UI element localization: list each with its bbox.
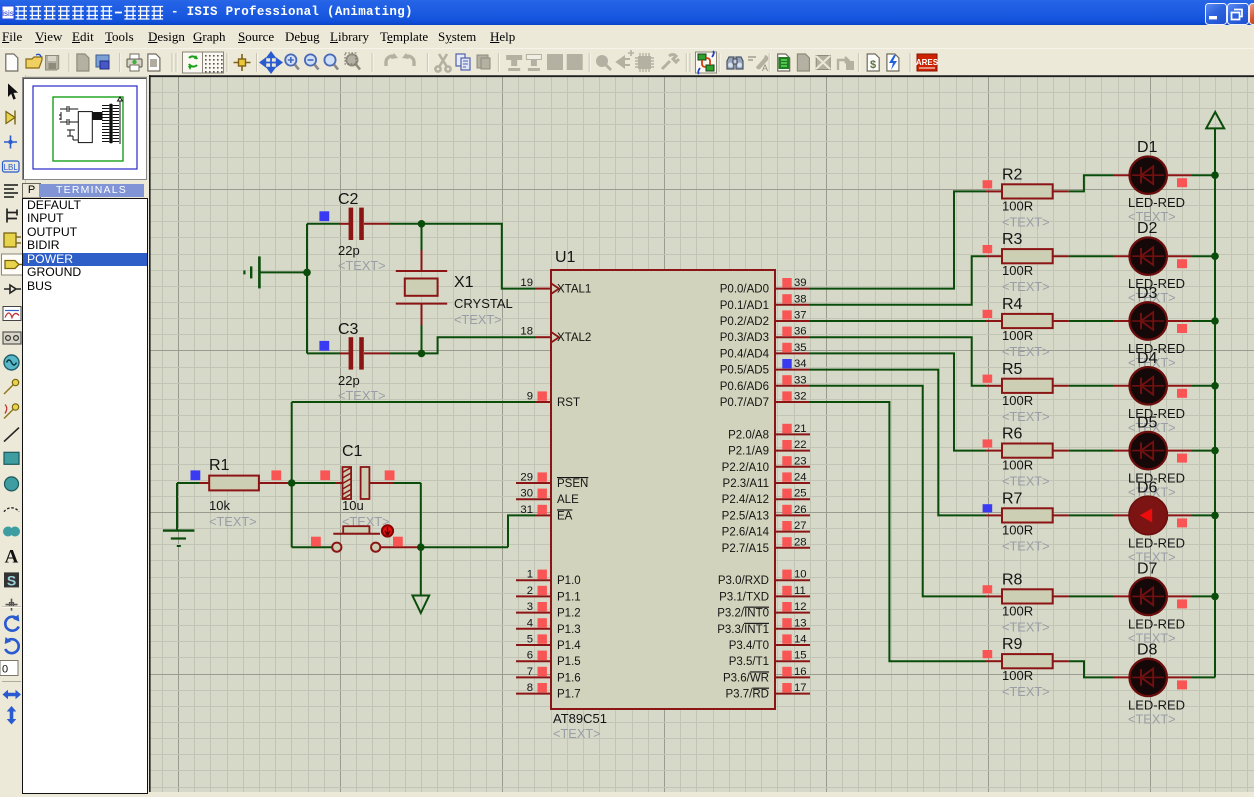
svg-text:11: 11 <box>794 585 806 597</box>
svg-text:100R: 100R <box>1002 328 1033 343</box>
svg-text:P3.0/RXD: P3.0/RXD <box>718 575 769 587</box>
svg-text:P3.1/TXD: P3.1/TXD <box>719 591 769 603</box>
svg-text:D7: D7 <box>1137 560 1158 577</box>
svg-text:LED-RED: LED-RED <box>1128 697 1185 712</box>
svg-text:D6: D6 <box>1137 479 1158 496</box>
svg-text:XTAL1: XTAL1 <box>557 284 591 296</box>
svg-text:RST: RST <box>557 397 580 409</box>
svg-text:100R: 100R <box>1002 603 1033 618</box>
svg-text:8: 8 <box>527 682 533 694</box>
svg-text:<TEXT>: <TEXT> <box>1002 279 1050 294</box>
svg-text:38: 38 <box>794 293 807 305</box>
svg-text:18: 18 <box>520 326 533 338</box>
svg-text:P3.5/T1: P3.5/T1 <box>729 656 769 668</box>
svg-text:P0.1/AD1: P0.1/AD1 <box>720 300 769 312</box>
svg-text:100R: 100R <box>1002 198 1033 213</box>
svg-text:24: 24 <box>794 472 807 484</box>
svg-text:AT89C51: AT89C51 <box>553 711 607 726</box>
svg-text:26: 26 <box>794 504 807 516</box>
svg-text:10: 10 <box>794 569 807 581</box>
svg-text:P1.5: P1.5 <box>557 656 581 668</box>
svg-text:C2: C2 <box>338 191 359 208</box>
svg-text:39: 39 <box>794 277 807 289</box>
svg-text:P0.2/AD2: P0.2/AD2 <box>720 316 769 328</box>
svg-text:28: 28 <box>794 536 807 548</box>
svg-text:P0.3/AD3: P0.3/AD3 <box>720 332 769 344</box>
svg-text:S: S <box>7 572 16 588</box>
svg-text:1: 1 <box>527 569 533 581</box>
svg-text:CRYSTAL: CRYSTAL <box>454 296 513 311</box>
svg-text:36: 36 <box>794 326 807 338</box>
svg-text:P1.6: P1.6 <box>557 672 581 684</box>
svg-text:6: 6 <box>527 650 533 662</box>
svg-text:<TEXT>: <TEXT> <box>1002 474 1050 489</box>
svg-text:35: 35 <box>794 342 807 354</box>
svg-text:P3.6/WR: P3.6/WR <box>723 672 769 684</box>
svg-text:22p: 22p <box>338 373 360 388</box>
svg-text:XTAL2: XTAL2 <box>557 332 591 344</box>
svg-text:30: 30 <box>520 488 533 500</box>
svg-text:P1.1: P1.1 <box>557 591 581 603</box>
svg-text:D2: D2 <box>1137 220 1158 237</box>
svg-text:19: 19 <box>520 277 533 289</box>
svg-text:R7: R7 <box>1002 490 1023 507</box>
svg-text:P2.3/A11: P2.3/A11 <box>723 478 769 490</box>
svg-text:ARES: ARES <box>916 58 939 67</box>
svg-text:P2.1/A9: P2.1/A9 <box>728 446 769 458</box>
svg-text:P3.4/T0: P3.4/T0 <box>729 640 769 652</box>
svg-text:P2.6/A14: P2.6/A14 <box>722 527 770 539</box>
svg-text:P0.0/AD0: P0.0/AD0 <box>720 284 769 296</box>
svg-text:P2.2/A10: P2.2/A10 <box>722 462 769 474</box>
svg-text:P2.7/A15: P2.7/A15 <box>722 543 769 555</box>
svg-text:31: 31 <box>520 504 533 516</box>
svg-text:33: 33 <box>794 374 807 386</box>
svg-text:PSEN: PSEN <box>557 478 588 490</box>
svg-text:<TEXT>: <TEXT> <box>1002 344 1050 359</box>
svg-text:13: 13 <box>794 617 807 629</box>
svg-text:D1: D1 <box>1137 139 1158 156</box>
svg-text:16: 16 <box>794 666 807 678</box>
svg-text:34: 34 <box>794 358 807 370</box>
svg-text:4: 4 <box>527 617 533 629</box>
svg-text:LED-RED: LED-RED <box>1128 195 1185 210</box>
svg-text:<TEXT>: <TEXT> <box>1002 619 1050 634</box>
svg-text:P1.2: P1.2 <box>557 608 581 620</box>
svg-text:<TEXT>: <TEXT> <box>1002 214 1050 229</box>
svg-text:LBL: LBL <box>4 163 19 172</box>
svg-text:P1.7: P1.7 <box>557 689 581 701</box>
svg-text:17: 17 <box>794 682 807 694</box>
svg-text:R1: R1 <box>209 457 230 474</box>
svg-text:D5: D5 <box>1137 415 1158 432</box>
svg-text:P1.0: P1.0 <box>557 575 581 587</box>
svg-text:C1: C1 <box>342 443 363 460</box>
svg-text:<TEXT>: <TEXT> <box>1002 538 1050 553</box>
svg-text:P2.5/A13: P2.5/A13 <box>722 510 769 522</box>
svg-text:100R: 100R <box>1002 458 1033 473</box>
svg-text:P3.3/INT1: P3.3/INT1 <box>717 624 769 636</box>
svg-text:EA: EA <box>557 510 573 522</box>
svg-text:3: 3 <box>527 601 533 613</box>
svg-text:P1.4: P1.4 <box>557 640 581 652</box>
svg-text:D8: D8 <box>1137 641 1158 658</box>
svg-text:D4: D4 <box>1137 350 1158 367</box>
svg-text:10k: 10k <box>209 498 230 513</box>
svg-text:100R: 100R <box>1002 668 1033 683</box>
svg-text:P0.7/AD7: P0.7/AD7 <box>720 397 769 409</box>
svg-text:R8: R8 <box>1002 571 1023 588</box>
svg-text:D3: D3 <box>1137 285 1158 302</box>
svg-text:R6: R6 <box>1002 426 1023 443</box>
svg-text:R4: R4 <box>1002 296 1023 313</box>
svg-text:0: 0 <box>2 664 8 676</box>
svg-text:22p: 22p <box>338 243 360 258</box>
svg-text:9: 9 <box>527 391 533 403</box>
svg-text:<TEXT>: <TEXT> <box>454 312 502 327</box>
svg-text:<TEXT>: <TEXT> <box>1002 684 1050 699</box>
svg-text:LED-RED: LED-RED <box>1128 535 1185 550</box>
svg-text:A: A <box>5 547 19 568</box>
svg-text:P3.2/INT0: P3.2/INT0 <box>717 608 769 620</box>
svg-text:12: 12 <box>794 601 807 613</box>
svg-text:21: 21 <box>794 423 807 435</box>
svg-text:10u: 10u <box>342 498 364 513</box>
svg-text:P2.0/A8: P2.0/A8 <box>728 429 769 441</box>
svg-text:P2.4/A12: P2.4/A12 <box>722 494 769 506</box>
svg-text:R5: R5 <box>1002 361 1023 378</box>
svg-text:R9: R9 <box>1002 636 1023 653</box>
svg-text:37: 37 <box>794 310 807 322</box>
svg-text:100R: 100R <box>1002 263 1033 278</box>
svg-text:25: 25 <box>794 488 807 500</box>
svg-text:15: 15 <box>794 650 807 662</box>
svg-text:22: 22 <box>794 439 807 451</box>
svg-text:100R: 100R <box>1002 393 1033 408</box>
svg-text:R2: R2 <box>1002 166 1023 183</box>
svg-text:isis: isis <box>2 9 14 18</box>
svg-text:<TEXT>: <TEXT> <box>1002 409 1050 424</box>
svg-text:29: 29 <box>520 472 533 484</box>
svg-text:<TEXT>: <TEXT> <box>553 726 601 741</box>
svg-text:<TEXT>: <TEXT> <box>338 388 386 403</box>
svg-text:100R: 100R <box>1002 522 1033 537</box>
svg-text:A: A <box>762 63 768 73</box>
svg-text:U1: U1 <box>555 249 576 266</box>
svg-text:2: 2 <box>527 585 533 597</box>
svg-text:23: 23 <box>794 455 807 467</box>
svg-text:5: 5 <box>527 634 533 646</box>
svg-text:27: 27 <box>794 520 807 532</box>
svg-text:14: 14 <box>794 634 807 646</box>
svg-text:C3: C3 <box>338 321 359 338</box>
svg-text:P1.3: P1.3 <box>557 624 581 636</box>
svg-text:LED-RED: LED-RED <box>1128 616 1185 631</box>
svg-text:ALE: ALE <box>557 494 579 506</box>
svg-text:<TEXT>: <TEXT> <box>209 514 257 529</box>
svg-text:7: 7 <box>527 666 533 678</box>
svg-text:R3: R3 <box>1002 231 1023 248</box>
svg-text:<TEXT>: <TEXT> <box>338 258 386 273</box>
svg-text:P0.5/AD5: P0.5/AD5 <box>720 365 769 377</box>
svg-text:$: $ <box>870 59 876 71</box>
svg-text:32: 32 <box>794 391 807 403</box>
svg-text:<TEXT>: <TEXT> <box>1128 711 1176 726</box>
svg-text:P0.6/AD6: P0.6/AD6 <box>720 381 769 393</box>
svg-text:P3.7/RD: P3.7/RD <box>726 689 769 701</box>
svg-text:X1: X1 <box>454 274 474 291</box>
svg-text:P0.4/AD4: P0.4/AD4 <box>720 348 770 360</box>
